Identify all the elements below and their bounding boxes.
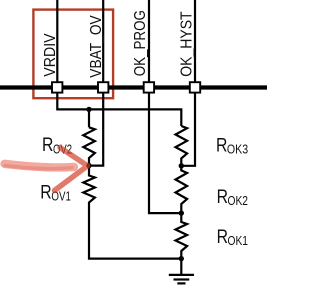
- svg-text:OK1: OK1: [228, 233, 249, 248]
- svg-text:VRDIV: VRDIV: [42, 33, 59, 77]
- svg-text:OK3: OK3: [227, 141, 248, 156]
- svg-text:R: R: [42, 135, 53, 156]
- svg-text:OK_PROG: OK_PROG: [132, 10, 149, 76]
- svg-text:VBAT_OV: VBAT_OV: [88, 15, 105, 78]
- svg-text:R: R: [217, 227, 228, 248]
- svg-text:OK2: OK2: [228, 193, 249, 208]
- svg-text:R: R: [40, 182, 51, 203]
- svg-text:R: R: [217, 187, 228, 208]
- svg-text:OK_HYST: OK_HYST: [178, 11, 195, 77]
- svg-text:R: R: [216, 135, 227, 156]
